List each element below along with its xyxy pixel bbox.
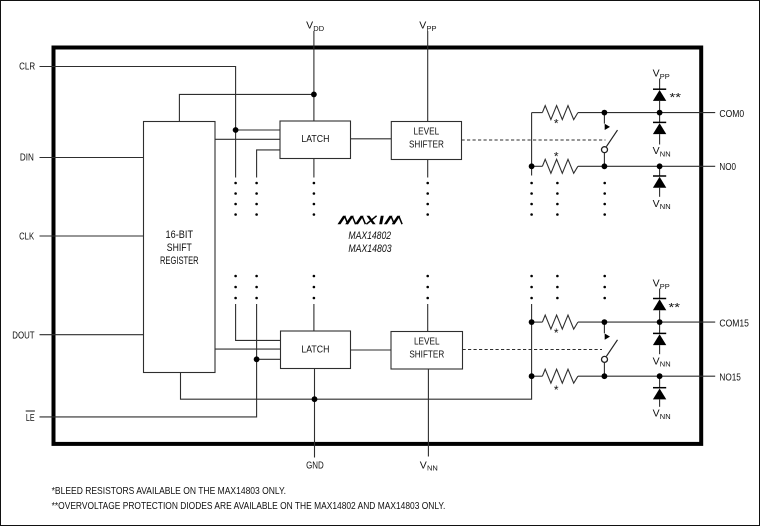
16-bit shift register block U1 bbox=[144, 122, 216, 373]
junction D3/NO0 bbox=[657, 163, 663, 169]
pin VPP bbox=[419, 20, 436, 33]
IC boundary bbox=[54, 48, 702, 444]
diode D2 (COM0 to VNN clamp) bbox=[653, 113, 666, 145]
wire shift register to lower latch (data) bbox=[215, 348, 281, 350]
svg-text:NO15: NO15 bbox=[719, 371, 741, 383]
svg-text:PP: PP bbox=[660, 72, 670, 81]
wire VNN vertical (bottom) bbox=[427, 369, 429, 457]
svg-text:GND: GND bbox=[306, 459, 324, 471]
junction bleed rail/COM15 bbox=[529, 319, 535, 325]
wire COM15 line bbox=[532, 321, 716, 323]
Maxim logo bbox=[338, 216, 401, 224]
net VNN label (D5) bbox=[653, 355, 671, 368]
diode D1 (COM0 to VPP clamp) bbox=[653, 79, 666, 113]
resistor R4 (NO15 bleed) bbox=[542, 369, 578, 383]
svg-text:CLR: CLR bbox=[19, 60, 35, 72]
latch block (bottom) bbox=[281, 331, 351, 369]
junction D6/NO15 bbox=[657, 373, 663, 379]
svg-text:V: V bbox=[420, 459, 427, 471]
wire CLR net bbox=[40, 67, 281, 341]
continuation dots (output channels, top) bbox=[530, 182, 606, 216]
net VNN label (D6) bbox=[653, 408, 671, 421]
wire DIN bbox=[40, 157, 144, 159]
svg-text:*: * bbox=[554, 117, 559, 131]
latch block (top) bbox=[280, 121, 351, 159]
wire DOUT bbox=[40, 334, 144, 336]
svg-text:**OVERVOLTAGE PROTECTION DIODE: **OVERVOLTAGE PROTECTION DIODES ARE AVAI… bbox=[52, 501, 446, 512]
wire latch column stub (to lower latch) bbox=[313, 304, 315, 331]
pin VNN bbox=[420, 459, 438, 472]
net VNN label (D3) bbox=[653, 198, 671, 211]
svg-text:V: V bbox=[306, 20, 313, 32]
junction SW0 bottom bbox=[602, 163, 608, 169]
wire LE net bbox=[40, 150, 281, 417]
junction GND/bottom rail bbox=[312, 396, 318, 402]
svg-text:MAX14802: MAX14802 bbox=[348, 230, 391, 242]
svg-text:V: V bbox=[653, 355, 660, 367]
junction SW15 bottom bbox=[602, 373, 608, 379]
resistor R2 (NO0 bleed) bbox=[542, 159, 578, 173]
wire CLK bbox=[40, 235, 144, 237]
resistor R1 (COM0 bleed) bbox=[542, 106, 578, 120]
diode D5 (COM15 to VNN clamp) bbox=[653, 322, 666, 354]
wire latch to level shifter (top) bbox=[351, 138, 392, 140]
svg-text:**: ** bbox=[669, 300, 681, 314]
junction D1-D2/COM0 bbox=[657, 110, 663, 116]
junction bleed rail/NO0 bbox=[529, 163, 535, 169]
junction bleed rail/NO15 bbox=[529, 373, 535, 379]
svg-text:V: V bbox=[653, 145, 660, 157]
wire VDD vertical bbox=[313, 31, 315, 121]
net VPP label (ch15 clamp) bbox=[653, 278, 670, 291]
wire level shifter column stubs bbox=[427, 160, 429, 332]
svg-text:PP: PP bbox=[660, 282, 670, 291]
svg-text:NN: NN bbox=[660, 360, 671, 369]
svg-text:LEVEL: LEVEL bbox=[414, 127, 440, 138]
svg-text:LEVEL: LEVEL bbox=[414, 337, 440, 348]
svg-text:LATCH: LATCH bbox=[301, 134, 329, 145]
svg-text:V: V bbox=[419, 20, 426, 32]
svg-text:DD: DD bbox=[313, 24, 324, 33]
svg-text:NN: NN bbox=[660, 149, 671, 158]
wire NO0 line bbox=[532, 165, 716, 167]
dashed control line to switch SW0 bbox=[462, 139, 606, 141]
junction SW0 top bbox=[602, 110, 608, 116]
wire VDD branch to shift register top bbox=[179, 94, 314, 121]
diode D6 (NO15 to VNN clamp) bbox=[653, 376, 666, 407]
svg-text:*: * bbox=[554, 383, 559, 397]
svg-text:V: V bbox=[653, 198, 660, 210]
svg-text:NN: NN bbox=[660, 202, 671, 211]
svg-text:V: V bbox=[653, 278, 660, 290]
svg-text:NN: NN bbox=[427, 464, 438, 473]
svg-text:REGISTER: REGISTER bbox=[160, 255, 199, 267]
wire lower latch to level shifter bbox=[350, 349, 391, 351]
svg-text:*: * bbox=[554, 326, 559, 340]
level shifter block (top) bbox=[391, 122, 461, 160]
level shifter block (bottom) bbox=[391, 332, 463, 370]
wire shift register to latch (top data) bbox=[215, 138, 280, 140]
svg-text:COM15: COM15 bbox=[719, 317, 749, 329]
dashed control line to switch SW15 bbox=[463, 349, 603, 351]
svg-text:*BLEED RESISTORS AVAILABLE ON: *BLEED RESISTORS AVAILABLE ON THE MAX148… bbox=[52, 486, 286, 497]
svg-text:SHIFTER: SHIFTER bbox=[409, 140, 444, 151]
wire COM0 line bbox=[532, 112, 716, 114]
continuation dots (shift register columns, bottom) bbox=[234, 275, 429, 300]
wire NO15 line bbox=[532, 375, 716, 377]
switch SW15 bbox=[602, 322, 618, 376]
svg-text:SHIFT: SHIFT bbox=[167, 242, 192, 254]
svg-text:PP: PP bbox=[427, 24, 437, 33]
junction D4-D5/COM15 bbox=[657, 319, 663, 325]
resistor R3 (COM15 bleed) bbox=[542, 315, 578, 329]
pin LE (active low, overline) bbox=[26, 411, 35, 424]
net VPP label (ch0 clamp) bbox=[653, 68, 670, 81]
svg-text:V: V bbox=[653, 68, 660, 80]
svg-text:DOUT: DOUT bbox=[12, 330, 35, 342]
svg-text:CLK: CLK bbox=[19, 230, 34, 242]
svg-text:*: * bbox=[554, 150, 559, 164]
svg-text:NO0: NO0 bbox=[719, 161, 736, 173]
svg-text:LATCH: LATCH bbox=[301, 344, 329, 355]
switch SW0 bbox=[602, 113, 618, 167]
diode D4 (COM15 to VPP clamp) bbox=[653, 289, 666, 323]
svg-text:SHIFTER: SHIFTER bbox=[409, 350, 444, 361]
svg-text:MAX14803: MAX14803 bbox=[348, 243, 392, 255]
svg-text:V: V bbox=[653, 408, 660, 420]
wire bottom rail from shift register to bleed rail bbox=[181, 373, 532, 400]
wire VPP vertical (top) bbox=[427, 31, 429, 122]
continuation dots (shift register columns, top) bbox=[234, 182, 429, 216]
svg-text:NN: NN bbox=[660, 412, 671, 421]
wire bleed rail vertical (ch15) bbox=[531, 304, 533, 376]
svg-text:COM0: COM0 bbox=[719, 108, 744, 120]
continuation dots (output channels, bottom) bbox=[530, 275, 606, 300]
svg-text:LE: LE bbox=[26, 412, 35, 424]
svg-text:DIN: DIN bbox=[20, 152, 34, 164]
junction CLR/latch bbox=[233, 127, 239, 133]
junction SW15 top bbox=[602, 319, 608, 325]
wire latch column stub (top) bbox=[313, 159, 315, 178]
wire bleed rail vertical (ch0) bbox=[531, 113, 533, 176]
net VNN label (D2) bbox=[653, 145, 671, 158]
wire GND vertical bbox=[314, 369, 316, 458]
svg-text:**: ** bbox=[670, 90, 682, 104]
junction VDD/rail bbox=[311, 92, 317, 98]
diode D3 (NO0 to VNN clamp) bbox=[653, 166, 666, 197]
svg-text:16-BIT: 16-BIT bbox=[166, 229, 194, 241]
pin VDD bbox=[306, 20, 325, 33]
junction LE/lower latch bbox=[254, 356, 260, 362]
